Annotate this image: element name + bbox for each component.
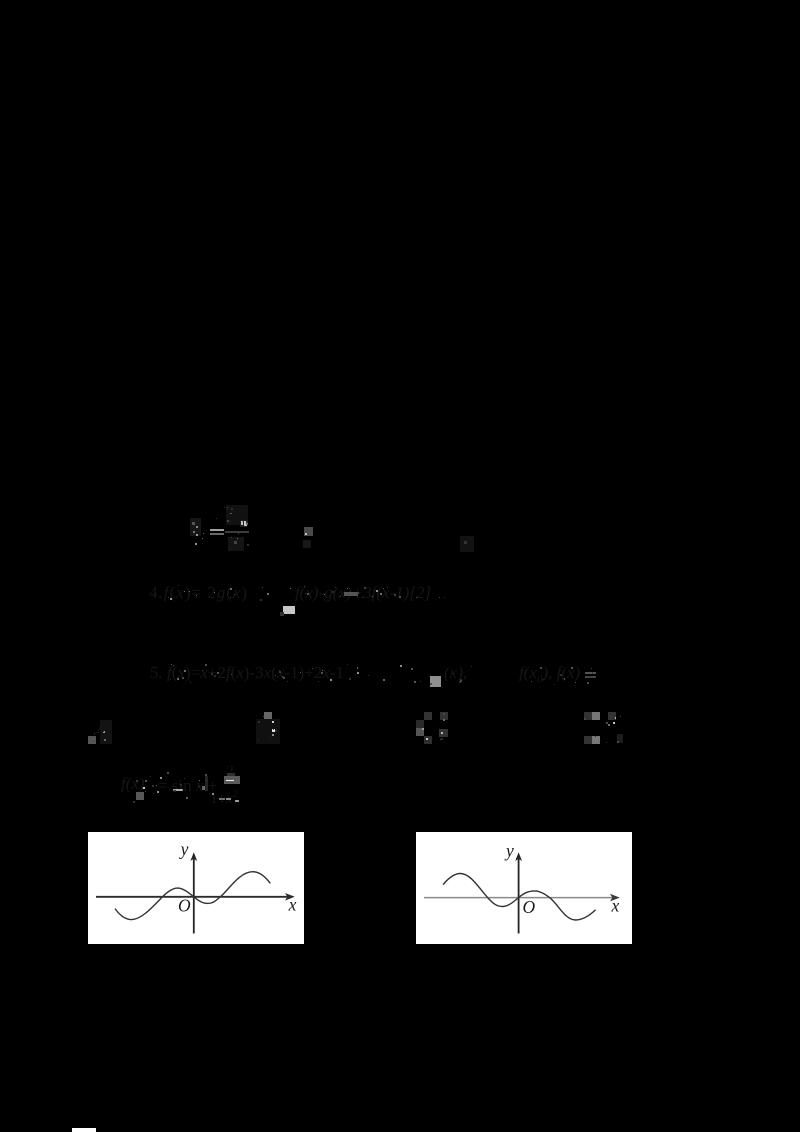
svg-text:y: y bbox=[504, 840, 514, 860]
svg-text:O: O bbox=[523, 897, 536, 917]
svg-text:x: x bbox=[288, 894, 297, 914]
svg-text:O: O bbox=[178, 896, 191, 916]
svg-text:x: x bbox=[611, 895, 620, 915]
svg-text:y: y bbox=[179, 839, 189, 859]
